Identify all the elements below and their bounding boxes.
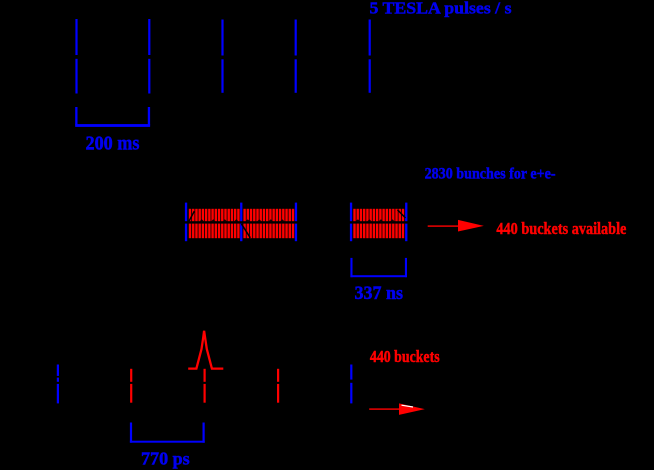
bunch train 3 (red bunches) [353, 209, 404, 238]
bunch train separator (blue) 5 [405, 203, 407, 242]
svg-text:5 TESLA pulses / s: 5 TESLA pulses / s [370, 0, 512, 17]
bottom bucket marker 4 (red) [277, 369, 279, 403]
arrow (red) to 440 buckets available [428, 220, 484, 232]
svg-text:200 ms: 200 ms [86, 133, 140, 155]
bottom time axis (black gaps) [50, 382, 348, 384]
TESLA pulse 1 (blue vertical line) [75, 19, 77, 94]
extra axis gap on blue marker 5 [349, 380, 356, 383]
svg-text:2830 bunches for e+e-: 2830 bunches for e+e- [425, 166, 556, 183]
svg-text:440 buckets: 440 buckets [370, 347, 440, 366]
white highlight streak on arrowhead [402, 405, 414, 407]
TESLA pulse 3 [221, 20, 223, 93]
zoom connector segment A (black) [188, 211, 194, 222]
svg-text:440 buckets available: 440 buckets available [496, 219, 626, 238]
zoom connector segment C (black) [398, 210, 406, 218]
bunch train separator (blue) 2 [240, 203, 242, 242]
770 ps interval bracket [130, 423, 205, 443]
bunch train separator (blue) 1 [185, 203, 187, 242]
bunch train separator (blue) 4 [350, 203, 352, 242]
bunch spike (red peak) [188, 331, 223, 369]
bottom bucket marker 1 (blue) [57, 365, 59, 404]
zoom connector segment B (black) [241, 224, 250, 238]
time axis (black line crossing trains) [183, 221, 409, 223]
TESLA pulse 5 [369, 20, 371, 93]
svg-text:337 ns: 337 ns [355, 284, 404, 304]
TESLA pulse 2 [148, 19, 150, 94]
extra axis gap on blue marker 1 [55, 376, 62, 378]
svg-text:770 ps: 770 ps [141, 449, 190, 469]
337 ns interval bracket [350, 258, 407, 277]
200 ms interval bracket [75, 107, 150, 127]
axis tick notches (black) on bunch trains [200, 219, 204, 221]
bunch train separator (blue) 3 [295, 203, 297, 242]
bottom bucket marker 5 (blue) [350, 365, 352, 404]
bottom bucket marker 2 (red) [130, 369, 132, 403]
arrow (red) bottom right [369, 403, 425, 415]
TESLA pulse 4 [295, 20, 297, 93]
bunch train 1 (red bunches) [189, 209, 240, 238]
bottom bucket marker 3 (red, under spike) [204, 369, 206, 403]
bunch train 2 (red bunches) [243, 209, 294, 238]
